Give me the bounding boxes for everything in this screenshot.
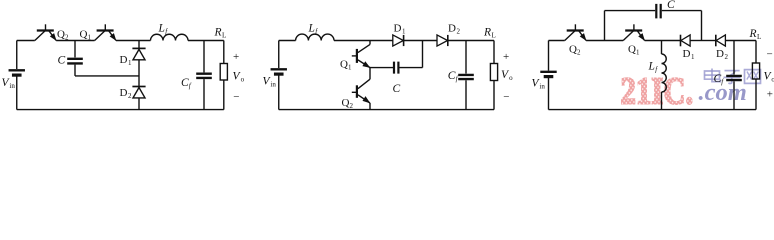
svg-text:C: C bbox=[448, 70, 456, 82]
svg-text:C: C bbox=[714, 73, 722, 85]
svg-text:2: 2 bbox=[350, 102, 354, 110]
svg-text:D: D bbox=[716, 48, 724, 60]
svg-text:in: in bbox=[270, 81, 276, 89]
svg-text:in: in bbox=[9, 82, 15, 90]
svg-text:L: L bbox=[158, 22, 165, 34]
svg-text:R: R bbox=[749, 28, 757, 40]
svg-text:D: D bbox=[120, 54, 128, 66]
svg-text:D: D bbox=[120, 87, 128, 99]
svg-text:Q: Q bbox=[569, 43, 577, 55]
svg-text:−: − bbox=[503, 91, 509, 103]
svg-text:1: 1 bbox=[636, 48, 640, 56]
svg-text:L: L bbox=[222, 31, 226, 39]
svg-text:Q: Q bbox=[340, 58, 348, 70]
svg-text:Q: Q bbox=[57, 29, 65, 41]
svg-text:o: o bbox=[241, 76, 245, 84]
svg-text:2: 2 bbox=[457, 27, 461, 35]
svg-text:1: 1 bbox=[402, 27, 406, 35]
svg-text:2: 2 bbox=[65, 34, 69, 42]
svg-text:Q: Q bbox=[80, 29, 88, 41]
svg-text:R: R bbox=[214, 26, 222, 38]
svg-text:1: 1 bbox=[128, 59, 132, 67]
svg-text:L: L bbox=[648, 61, 655, 73]
svg-text:o: o bbox=[509, 74, 513, 82]
svg-text:+: + bbox=[233, 51, 239, 63]
svg-text:2: 2 bbox=[128, 92, 132, 100]
svg-text:2: 2 bbox=[577, 48, 581, 56]
svg-text:1: 1 bbox=[348, 63, 352, 71]
svg-text:D: D bbox=[448, 22, 456, 34]
svg-text:Q: Q bbox=[628, 43, 636, 55]
svg-text:D: D bbox=[683, 48, 691, 60]
svg-text:D: D bbox=[394, 22, 402, 34]
svg-text:Q: Q bbox=[342, 97, 350, 109]
svg-text:1: 1 bbox=[88, 34, 92, 42]
svg-text:C: C bbox=[58, 54, 66, 66]
svg-text:R: R bbox=[483, 26, 491, 38]
svg-text:L: L bbox=[308, 22, 315, 34]
svg-text:2: 2 bbox=[725, 53, 729, 61]
svg-text:L: L bbox=[757, 33, 761, 41]
svg-text:+: + bbox=[767, 88, 773, 100]
svg-text:1: 1 bbox=[691, 53, 695, 61]
svg-text:−: − bbox=[233, 91, 239, 103]
svg-text:L: L bbox=[492, 31, 496, 39]
svg-text:21IC.: 21IC. bbox=[621, 69, 694, 112]
svg-text:in: in bbox=[539, 83, 545, 91]
svg-text:−: − bbox=[767, 49, 773, 61]
svg-text:+: + bbox=[503, 51, 509, 63]
svg-text:C: C bbox=[181, 77, 189, 89]
svg-text:C: C bbox=[667, 0, 675, 11]
svg-text:C: C bbox=[393, 83, 401, 95]
